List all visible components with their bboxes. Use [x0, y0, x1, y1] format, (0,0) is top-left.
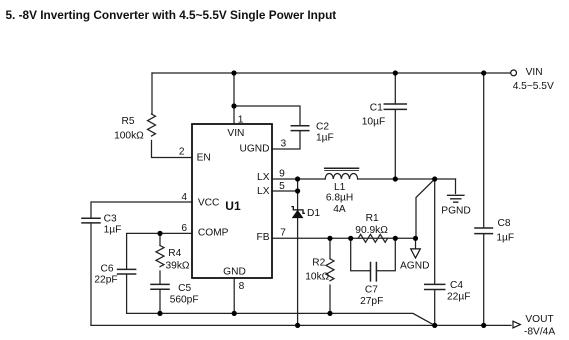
svg-text:27pF: 27pF	[360, 296, 383, 307]
node C1 bottom	[393, 176, 398, 181]
svg-text:90.9kΩ: 90.9kΩ	[355, 225, 388, 236]
node top rail / pin1	[231, 70, 236, 75]
node GND pin8	[232, 311, 237, 316]
wire top VIN rail	[152, 72, 511, 74]
inductor L1	[325, 174, 357, 180]
wire R2 bottom lead	[329, 285, 331, 313]
svg-text:R5: R5	[121, 116, 134, 127]
wire COMP pin6 to C6 top	[127, 233, 192, 269]
svg-text:5: 5	[279, 181, 285, 192]
capacitor C1	[384, 104, 406, 109]
IC U1 pin name labels	[197, 128, 270, 278]
svg-text:8: 8	[239, 281, 245, 292]
svg-text:LX: LX	[257, 186, 270, 197]
capacitor C6	[118, 269, 136, 274]
wire inner ground rail	[127, 313, 435, 325]
svg-text:1µF: 1µF	[316, 133, 334, 144]
svg-text:R4: R4	[168, 248, 181, 259]
wire L1 to output node	[358, 178, 456, 180]
wire R5 bottom to EN pin2	[152, 141, 193, 158]
resistor R5	[148, 114, 156, 136]
svg-text:AGND: AGND	[400, 261, 429, 272]
wire C4 vertical	[434, 179, 436, 325]
wire R4 top lead	[159, 233, 161, 245]
node R2 bottom	[327, 311, 332, 316]
wire R2 top lead	[329, 238, 331, 258]
svg-text:EN: EN	[197, 152, 211, 163]
svg-text:C4: C4	[450, 280, 463, 291]
svg-text:R1: R1	[366, 213, 379, 224]
node C1 top	[393, 70, 398, 75]
diode D1	[291, 207, 305, 218]
node LX9 / D1	[295, 176, 300, 181]
node right rail top	[481, 70, 486, 75]
resistor R4	[156, 246, 164, 267]
wire PGND stem	[455, 179, 457, 194]
wire outer bottom rail to VOUT	[91, 324, 511, 326]
terminal VOUT (open arrow)	[513, 321, 520, 328]
node C7 right	[393, 236, 398, 241]
svg-text:GND: GND	[223, 267, 246, 278]
wire right rail (VIN to C8 to VOUT rail)	[483, 73, 485, 325]
terminal VIN (open circle)	[511, 70, 517, 76]
svg-text:C8: C8	[498, 218, 511, 229]
svg-text:VCC: VCC	[198, 198, 220, 209]
svg-text:560pF: 560pF	[170, 295, 199, 306]
svg-text:6: 6	[181, 223, 187, 234]
capacitor C7	[371, 263, 377, 281]
node C8 bottom	[481, 323, 486, 328]
svg-text:10µF: 10µF	[362, 117, 385, 128]
wire C1 vertical	[394, 73, 396, 179]
node LX5 / D1	[295, 188, 300, 193]
svg-text:C6: C6	[100, 263, 113, 274]
resistor R1	[358, 234, 387, 242]
svg-text:R2: R2	[312, 258, 325, 269]
wire C7 right branch	[377, 238, 395, 270]
inductor L1 core bars	[325, 167, 359, 169]
wire C5 bottom to inner rail	[159, 290, 161, 314]
svg-text:1: 1	[238, 115, 244, 126]
svg-text:FB: FB	[256, 232, 269, 243]
svg-text:COMP: COMP	[198, 228, 229, 239]
svg-text:5. -8V Inverting Converter wit: 5. -8V Inverting Converter with 4.5~5.5V…	[6, 8, 337, 22]
svg-text:4A: 4A	[333, 204, 346, 215]
wire GND pin8	[233, 278, 235, 313]
resistor R2	[326, 259, 334, 281]
capacitor C2	[291, 126, 309, 131]
ground AGND (open triangle)	[411, 249, 421, 258]
svg-text:1µF: 1µF	[104, 225, 122, 236]
svg-text:4.5~5.5V: 4.5~5.5V	[513, 81, 554, 92]
svg-text:100kΩ: 100kΩ	[114, 130, 144, 141]
svg-text:2: 2	[179, 147, 185, 158]
node D1 anode / VOUT rail	[295, 323, 300, 328]
svg-text:D1: D1	[307, 208, 320, 219]
node C7 left	[348, 236, 353, 241]
svg-text:VOUT: VOUT	[525, 314, 553, 325]
svg-text:LX: LX	[257, 172, 270, 183]
svg-text:PGND: PGND	[441, 206, 470, 217]
node R2 top	[327, 236, 332, 241]
svg-text:VIN: VIN	[227, 128, 244, 139]
svg-text:U1: U1	[225, 199, 241, 213]
node C5 bottom	[157, 311, 162, 316]
node L1 output	[432, 176, 437, 181]
wire LX pin9 to L1	[272, 178, 325, 180]
svg-text:VIN: VIN	[526, 67, 543, 78]
wire C2 tap to C2 top	[234, 106, 300, 125]
wire VCC pin4 to C3 top	[91, 202, 192, 218]
ground PGND	[448, 195, 464, 202]
node R4 top	[157, 231, 162, 236]
svg-text:22pF: 22pF	[94, 275, 117, 286]
wire C6 bottom to inner rail	[126, 275, 128, 314]
svg-text:C5: C5	[178, 283, 191, 294]
svg-text:7: 7	[280, 228, 286, 239]
pin numbers	[179, 115, 287, 293]
svg-text:6.8µH: 6.8µH	[326, 193, 353, 204]
IC U1 box	[192, 124, 272, 278]
node C2 tap	[231, 103, 236, 108]
node C4 bottom	[432, 323, 437, 328]
wire FB pin7	[272, 237, 416, 239]
capacitor C5	[151, 284, 169, 289]
svg-text:C3: C3	[104, 213, 117, 224]
wire R4 to C5	[159, 271, 161, 284]
svg-text:10kΩ: 10kΩ	[305, 271, 329, 282]
node AGND	[413, 236, 418, 241]
wire diagonal from output node to AGND node	[416, 179, 435, 238]
svg-text:C1: C1	[370, 103, 383, 114]
svg-text:9: 9	[279, 169, 285, 180]
svg-text:4: 4	[181, 192, 187, 203]
wire VIN pin1 vertical	[233, 73, 235, 124]
svg-text:-8V/4A: -8V/4A	[524, 327, 555, 338]
svg-text:22µF: 22µF	[447, 292, 470, 303]
svg-text:39kΩ: 39kΩ	[166, 261, 190, 272]
wire D1 vertical LX to VOUT rail	[297, 179, 299, 325]
wire LX pin5 to D1 node	[272, 190, 298, 192]
capacitor C8	[475, 228, 492, 234]
capacitor C4	[425, 284, 445, 289]
svg-text:UGND: UGND	[240, 144, 270, 155]
wire C2 bottom to UGND pin3	[272, 131, 300, 149]
wire AGND stem	[415, 238, 417, 249]
svg-text:3: 3	[281, 139, 287, 150]
capacitor C3	[82, 218, 100, 223]
svg-text:C2: C2	[316, 121, 329, 132]
svg-text:L1: L1	[334, 182, 346, 193]
wire C7 left branch	[351, 238, 370, 270]
svg-text:C7: C7	[365, 285, 378, 296]
wire C3 bottom to bottom rail	[90, 224, 92, 326]
wire R5 top lead from rail	[151, 73, 153, 114]
svg-text:1µF: 1µF	[496, 233, 514, 244]
